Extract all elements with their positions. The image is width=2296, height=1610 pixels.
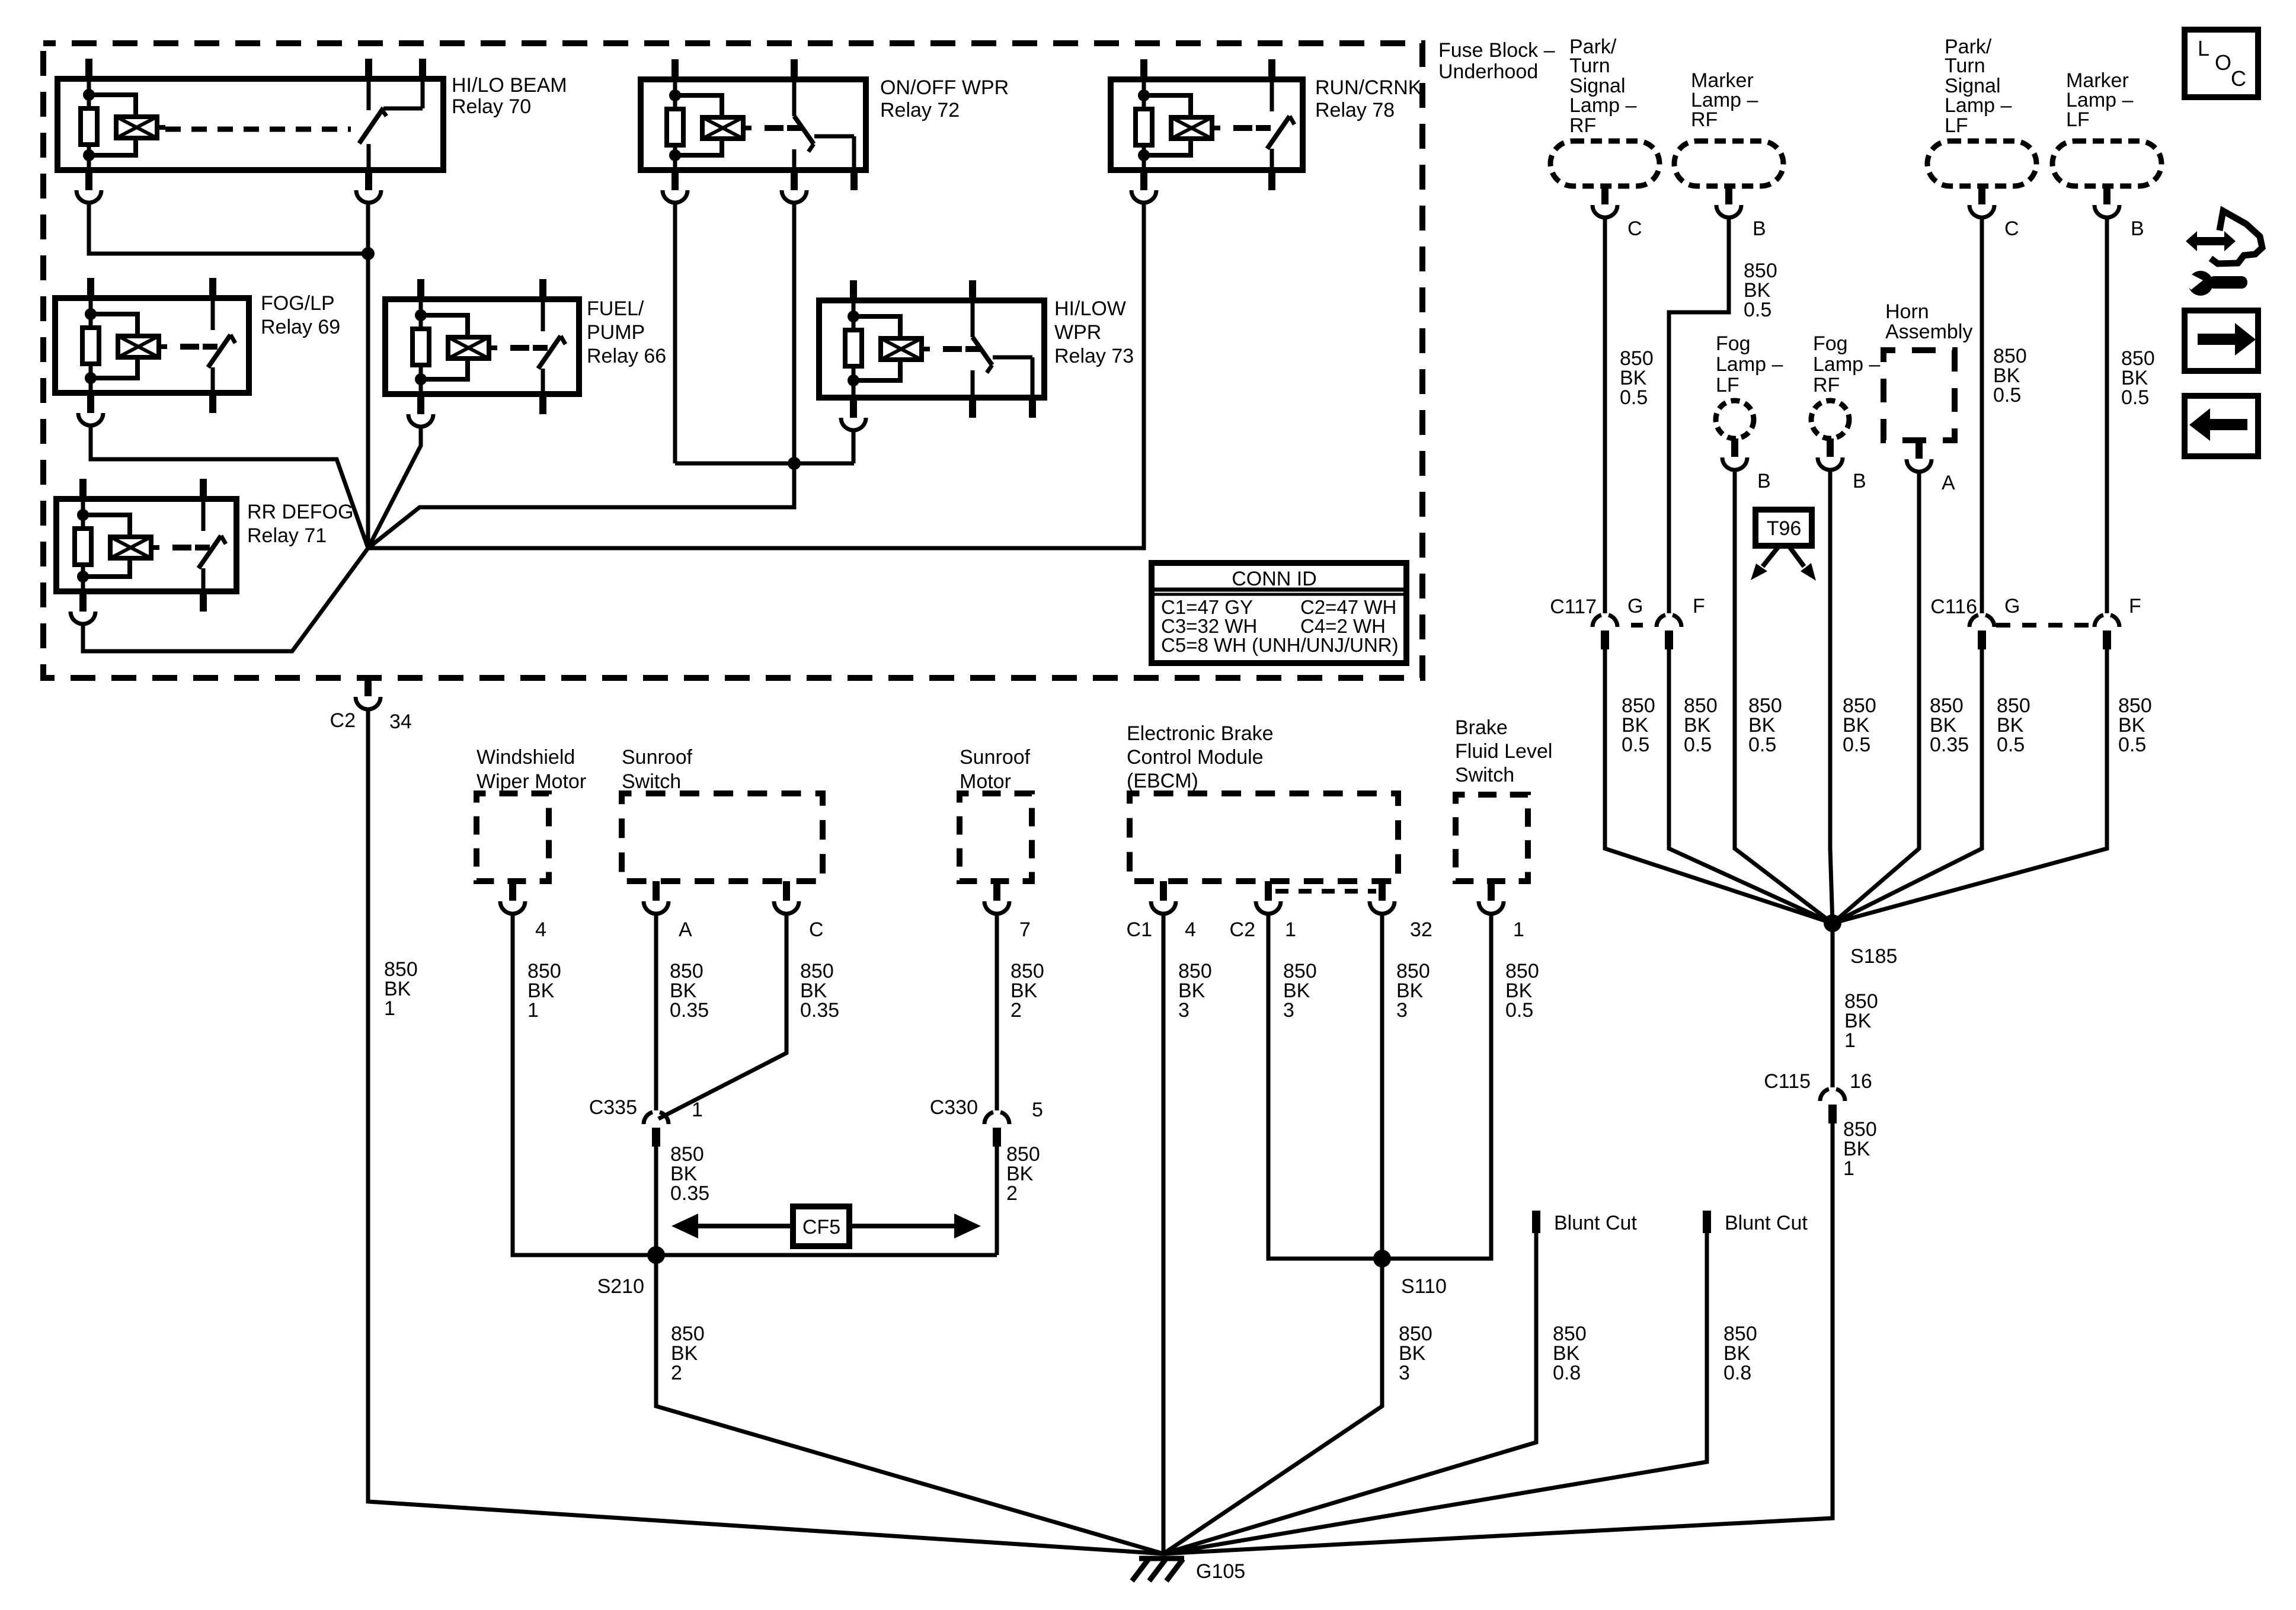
svg-text:Wiper Motor: Wiper Motor	[477, 770, 586, 793]
label relay 71	[247, 501, 353, 547]
wire brake fluid 1 to S110	[1382, 915, 1491, 1259]
wire S110 down to G105	[1163, 1259, 1382, 1554]
splice S110	[1373, 1250, 1447, 1298]
svg-text:1: 1	[384, 997, 395, 1020]
wire bus to junction X	[368, 463, 794, 548]
wire sunroof motor 7 down to C330	[995, 915, 999, 1110]
wire blunt cut 2 to G105	[1163, 1233, 1707, 1554]
wire relay70 coil to bus	[89, 204, 368, 254]
svg-text:0.35: 0.35	[670, 1182, 709, 1205]
svg-text:F: F	[2129, 595, 2141, 617]
svg-text:G105: G105	[1196, 1560, 1245, 1583]
connector sunroof motor pin 7	[984, 881, 1031, 941]
wire label 850 BK 1	[384, 958, 418, 1020]
svg-text:CONN ID: CONN ID	[1232, 568, 1317, 590]
wire horn A down to S185	[1833, 473, 1919, 923]
wire label 850 BK 1 (above C115)	[1844, 990, 1878, 1052]
wire M-LF B down to C116-F	[2105, 219, 2109, 613]
svg-text:RF: RF	[1691, 108, 1718, 131]
svg-text:Brake: Brake	[1455, 716, 1508, 739]
wire label 850 BK 0.5 (M-LF)	[2121, 347, 2155, 409]
connector brake fluid pin 1	[1479, 881, 1524, 941]
svg-text:0.5: 0.5	[1620, 386, 1648, 409]
relay 71 RR DEFOG	[56, 479, 236, 612]
connector C116 pin G	[1969, 615, 1994, 649]
connector under relay 73 coil pin	[841, 418, 866, 430]
wire C116-G down to S185	[1833, 649, 1982, 923]
svg-text:B: B	[1757, 470, 1771, 492]
wire blunt cut 1 to G105	[1163, 1233, 1536, 1554]
label relay 72	[880, 76, 1009, 121]
label C117 pin F	[1693, 595, 1705, 617]
label Electronic Brake Control Module (EBCM)	[1127, 722, 1274, 792]
svg-text:Relay 69: Relay 69	[261, 316, 340, 338]
wire label 850 BK 3 (C2-1)	[1283, 960, 1317, 1022]
splice S210	[597, 1246, 665, 1298]
svg-text:0.5: 0.5	[1993, 384, 2021, 406]
arrow T96 left	[1751, 546, 1779, 580]
svg-text:Turn: Turn	[1945, 55, 1985, 77]
svg-text:A: A	[1942, 472, 1955, 494]
svg-text:1: 1	[1844, 1029, 1856, 1052]
relay 70 HI/LO BEAM	[57, 59, 443, 190]
svg-text:Relay 71: Relay 71	[247, 524, 327, 547]
wire Fog-RF B down to S185	[1830, 471, 1833, 923]
svg-text:7: 7	[1019, 918, 1031, 941]
relay 78 RUN/CRNK	[1111, 59, 1303, 190]
wire label 850 BK 0.5 (Fog LF)	[1748, 694, 1782, 756]
connector under relay 70 coil pin	[76, 190, 101, 203]
svg-text:Underhood: Underhood	[1438, 60, 1538, 83]
svg-text:Lamp –: Lamp –	[1945, 94, 2012, 117]
wire relay72 coil down	[673, 204, 677, 463]
wire label 850 BK 0.35 (C)	[800, 960, 839, 1022]
svg-text:Motor: Motor	[960, 770, 1011, 793]
svg-text:B: B	[1853, 470, 1866, 492]
EBCM dashed link C2-32	[1275, 889, 1376, 894]
wire label 850 BK 0.5 (Fog RF)	[1843, 694, 1876, 756]
connector under relay 78 coil pin	[1131, 190, 1156, 203]
svg-text:4: 4	[535, 918, 546, 941]
wire label 850 BK 0.8 (bc2)	[1723, 1323, 1757, 1384]
label Park/Turn Signal Lamp LF	[1945, 36, 2012, 137]
svg-text:F: F	[1693, 595, 1705, 617]
svg-text:G: G	[1627, 595, 1643, 617]
svg-text:Lamp –: Lamp –	[1569, 94, 1636, 117]
svg-text:L: L	[2198, 36, 2209, 60]
connector under horn pin A	[1907, 440, 1955, 494]
label Sunroof Switch	[622, 746, 693, 793]
label C116	[1930, 596, 1977, 618]
junction dot at bus	[362, 247, 375, 260]
svg-text:Blunt Cut: Blunt Cut	[1554, 1212, 1637, 1234]
connector sunroof switch pin C	[774, 881, 824, 941]
C116 dashed link	[1996, 623, 2093, 628]
svg-text:3: 3	[1178, 999, 1189, 1022]
svg-text:S210: S210	[597, 1275, 644, 1298]
icon LOC box	[2185, 30, 2258, 97]
wire S185 down to C115	[1831, 923, 1835, 1087]
svg-text:Relay 78: Relay 78	[1315, 99, 1395, 121]
svg-text:2: 2	[1006, 1182, 1018, 1205]
connector under relay 66 coil pin	[408, 414, 433, 427]
connector under relay 71 coil pin	[71, 612, 95, 624]
wire EBCM C2-1 to S110	[1268, 915, 1382, 1259]
svg-text:Windshield: Windshield	[477, 746, 575, 769]
label relay 69	[261, 292, 340, 338]
svg-text:Fog: Fog	[1813, 332, 1848, 355]
wire label 850 BK 0.5 (C116 G)	[1997, 694, 2030, 756]
connector wiper pin 4	[500, 881, 546, 941]
lamp Fog Lamp RF	[1811, 401, 1849, 438]
wire relay78 coil to junction X	[368, 204, 1144, 548]
svg-text:S185: S185	[1850, 945, 1897, 968]
relay 66 FUEL/PUMP	[385, 279, 579, 414]
svg-text:1: 1	[1513, 918, 1524, 941]
connector under PT-LF pin C	[1969, 186, 2019, 240]
wire sunroof A down to C335	[654, 915, 658, 1110]
wire relay73 coil to bus	[852, 431, 856, 463]
splice S185	[1824, 914, 1897, 968]
wire label 850 BK 1 (below C115)	[1843, 1118, 1877, 1180]
label C117	[1550, 596, 1597, 618]
label C116 pin F	[2129, 595, 2141, 617]
wire label 850 BK 3 (pin 32)	[1396, 960, 1430, 1022]
svg-text:C: C	[2004, 217, 2019, 240]
connector EBCM C1 pin 4	[1127, 881, 1196, 941]
relay 72 ON/OFF WPR	[641, 59, 866, 190]
svg-text:0.35: 0.35	[670, 999, 709, 1022]
label Fog Lamp LF	[1716, 332, 1783, 396]
wire label 850 BK 0.5 (PT-LF)	[1993, 345, 2027, 406]
connector C115 pin 16	[1764, 1070, 1872, 1124]
CF5 box with double arrow	[671, 1206, 981, 1246]
svg-text:O: O	[2215, 50, 2231, 75]
connector under relay 72 switch pin	[782, 190, 807, 203]
svg-text:C2: C2	[1230, 918, 1255, 941]
wire label 850 BK 0.35 (A)	[670, 960, 709, 1022]
svg-text:Fog: Fog	[1716, 332, 1751, 355]
svg-text:0.5: 0.5	[1505, 999, 1533, 1022]
label Brake Fluid Level Switch	[1455, 716, 1552, 786]
connector EBCM pin 32	[1370, 881, 1432, 941]
wire label 850 BK 0.5 (PT-RF)	[1620, 347, 1654, 409]
wire label 850 BK 0.8 (bc1)	[1553, 1323, 1587, 1384]
svg-text:1: 1	[527, 999, 539, 1022]
wire C117-F down to S185	[1669, 649, 1833, 923]
svg-text:HI/LO BEAM: HI/LO BEAM	[452, 74, 567, 97]
svg-text:C116: C116	[1930, 596, 1977, 618]
label Sunroof Motor	[960, 746, 1031, 793]
wire label 850 BK 0.35 (horn)	[1930, 694, 1969, 756]
wire label 850 BK 0.5 (brake)	[1505, 960, 1539, 1022]
svg-text:C5=8 WH (UNH/UNJ/UNR): C5=8 WH (UNH/UNJ/UNR)	[1161, 634, 1399, 656]
connector under PT-RF pin C	[1593, 186, 1642, 240]
svg-text:Turn: Turn	[1569, 55, 1610, 77]
wire C115 down to G105	[1163, 1124, 1833, 1554]
svg-text:A: A	[679, 918, 692, 941]
svg-text:C: C	[809, 918, 824, 941]
svg-text:1: 1	[1843, 1157, 1854, 1180]
wire label 850 BK 2 (below S210)	[671, 1323, 705, 1384]
blunt cut 2	[1703, 1211, 1808, 1234]
svg-text:0.5: 0.5	[1744, 299, 1771, 321]
svg-text:32: 32	[1410, 918, 1432, 941]
svg-text:3: 3	[1396, 999, 1408, 1022]
wire label 850 BK 0.35 (below C335)	[670, 1143, 709, 1205]
svg-text:3: 3	[1399, 1362, 1410, 1384]
svg-text:WPR: WPR	[1054, 321, 1101, 344]
svg-text:0.5: 0.5	[1748, 734, 1776, 756]
label C116 pin G	[2004, 595, 2020, 617]
wire relay70 switch down to junction X	[366, 204, 370, 548]
label Park/Turn Signal Lamp RF	[1569, 36, 1636, 137]
label relay 66	[587, 297, 666, 367]
label Marker Lamp RF	[1691, 69, 1758, 131]
svg-text:Relay 66: Relay 66	[587, 345, 666, 367]
svg-text:Relay 72: Relay 72	[880, 99, 960, 121]
wire S210 bus	[513, 1253, 997, 1257]
svg-text:T96: T96	[1767, 517, 1802, 540]
svg-text:0.35: 0.35	[1930, 734, 1969, 756]
wire M-RF B jog to C117-F	[1669, 219, 1729, 613]
svg-text:C: C	[1627, 217, 1642, 240]
connector C2 pin 34	[330, 678, 412, 733]
lamp Park/Turn Signal Lamp RF	[1550, 141, 1659, 186]
wire label 850 BK 3 (C1-4)	[1178, 960, 1212, 1022]
label Horn Assembly	[1885, 300, 1972, 343]
label Windshield Wiper Motor	[477, 746, 586, 793]
relay 73 HI/LOW WPR	[819, 280, 1044, 418]
svg-text:Assembly: Assembly	[1885, 321, 1972, 343]
wire C330 down to S210 bus	[995, 1147, 999, 1255]
arrow T96 right	[1789, 546, 1816, 581]
svg-text:2: 2	[1011, 999, 1022, 1022]
svg-text:C330: C330	[930, 1096, 978, 1119]
wire PT-RF C down to C117-G	[1603, 219, 1607, 613]
wire label 850 BK 0.5 (C117 F)	[1684, 694, 1718, 756]
wire C116-F down to S185	[1833, 649, 2107, 923]
connector under relay 69 coil pin	[78, 413, 103, 425]
svg-text:0.8: 0.8	[1553, 1362, 1581, 1384]
ground G105	[1132, 1558, 1245, 1583]
connector under M-LF pin B	[2094, 186, 2144, 240]
relay 69 FOG/LP	[55, 278, 249, 413]
CONN ID table	[1152, 563, 1406, 663]
svg-text:4: 4	[1185, 918, 1196, 941]
wire relay69 coil to junction X	[91, 427, 368, 548]
EBCM box	[1130, 793, 1398, 881]
wire PT-LF C down to C116-G	[1980, 219, 1984, 613]
brake fluid level switch box	[1456, 795, 1528, 881]
svg-text:RUN/CRNK: RUN/CRNK	[1315, 76, 1422, 99]
connector C117 pin G	[1593, 615, 1617, 649]
icon diagnostic wrench	[2183, 211, 2262, 296]
icon arrow right box	[2185, 311, 2258, 371]
wire bus relay72/73	[675, 462, 854, 466]
svg-text:B: B	[2131, 217, 2144, 240]
label relay 70	[452, 74, 567, 118]
connector C330 pin 5	[930, 1096, 1043, 1147]
svg-text:1: 1	[692, 1099, 703, 1121]
svg-text:34: 34	[389, 710, 412, 733]
svg-text:Electronic Brake: Electronic Brake	[1127, 722, 1274, 745]
svg-text:Sunroof: Sunroof	[960, 746, 1031, 769]
sunroof motor box	[960, 793, 1032, 881]
connector under relay 72 coil pin	[663, 190, 687, 203]
svg-text:0.5: 0.5	[1622, 734, 1649, 756]
svg-text:Horn: Horn	[1885, 300, 1929, 323]
label C117 pin G	[1627, 595, 1643, 617]
connector sunroof switch pin A	[644, 881, 692, 941]
svg-text:C2: C2	[330, 709, 356, 732]
junction dot relay72 bus	[788, 457, 801, 470]
connector C117 pin F	[1657, 615, 1681, 649]
wire label 850 BK 1 (wiper)	[527, 960, 561, 1022]
svg-text:(EBCM): (EBCM)	[1127, 770, 1198, 792]
svg-text:LF: LF	[2066, 108, 2090, 131]
wire relay72 switch down	[792, 204, 797, 463]
connector under relay 70 switch pin	[356, 190, 381, 203]
svg-text:0.35: 0.35	[800, 999, 839, 1022]
wire EBCM 32 down to S110	[1380, 915, 1384, 1259]
wire label 850 BK 0.5 (M-RF)	[1744, 260, 1777, 321]
wire Fog-LF B down to S185	[1735, 471, 1833, 923]
windshield wiper motor box	[477, 793, 549, 881]
note box T96	[1755, 510, 1812, 546]
svg-text:S110: S110	[1401, 1275, 1447, 1298]
svg-text:Lamp –: Lamp –	[1813, 353, 1880, 376]
svg-text:Control Module: Control Module	[1127, 746, 1264, 769]
svg-text:CF5: CF5	[802, 1216, 840, 1238]
lamp Park/Turn Signal Lamp LF	[1927, 141, 2036, 186]
svg-text:B: B	[1753, 217, 1766, 240]
svg-text:0.5: 0.5	[2118, 734, 2146, 756]
label relay 78	[1315, 76, 1422, 121]
svg-text:C115: C115	[1764, 1070, 1811, 1093]
connector C335 pin 1	[589, 1096, 703, 1147]
svg-text:LF: LF	[1945, 114, 1968, 137]
svg-text:Relay 73: Relay 73	[1054, 345, 1134, 367]
svg-text:C1: C1	[1127, 918, 1152, 941]
lamp Marker Lamp LF	[2052, 141, 2161, 186]
svg-text:C117: C117	[1550, 596, 1597, 618]
svg-text:3: 3	[1283, 999, 1294, 1022]
blunt cut 1	[1532, 1211, 1637, 1234]
wire label 850 BK 0.5 (C117 G)	[1622, 694, 1655, 756]
label relay 73	[1054, 297, 1134, 367]
svg-text:0.5: 0.5	[2121, 386, 2149, 409]
wire sunroof C diagonal to C335	[658, 915, 786, 1119]
wire EBCM C1-4 down to G105	[1162, 915, 1166, 1554]
svg-text:RR DEFOG: RR DEFOG	[247, 501, 353, 523]
wire label 850 BK 3 (below S110)	[1399, 1323, 1432, 1384]
svg-text:C: C	[2231, 66, 2246, 91]
wire 850 BK 1 from C2 down to G105	[368, 710, 1163, 1554]
connector under M-RF pin B	[1716, 186, 1766, 240]
wire relay66 coil to junction X	[368, 428, 421, 548]
svg-text:RF: RF	[1813, 374, 1840, 396]
label Fog Lamp RF	[1813, 332, 1880, 396]
svg-text:0.5: 0.5	[1684, 734, 1712, 756]
svg-text:Blunt Cut: Blunt Cut	[1725, 1212, 1808, 1234]
svg-text:1: 1	[1285, 918, 1296, 941]
lamp Fog Lamp LF	[1716, 401, 1754, 438]
svg-text:2: 2	[671, 1362, 682, 1384]
horn assembly box	[1884, 350, 1955, 440]
svg-text:Switch: Switch	[1455, 764, 1514, 786]
wire label 850 BK 2 (below C330)	[1006, 1143, 1040, 1205]
connector under Fog-LF pin B	[1722, 438, 1771, 492]
label Marker Lamp LF	[2066, 69, 2133, 131]
svg-text:RF: RF	[1569, 114, 1596, 137]
wire label 850 BK 0.5 (C116 F)	[2118, 694, 2152, 756]
lamp Marker Lamp RF	[1674, 141, 1783, 186]
sunroof switch box	[622, 793, 823, 881]
svg-text:LF: LF	[1716, 374, 1739, 396]
svg-text:FOG/LP: FOG/LP	[261, 292, 335, 315]
label Fuse Block - Underhood	[1438, 39, 1555, 83]
wire C335 down to S210	[654, 1147, 658, 1255]
svg-text:16: 16	[1850, 1070, 1872, 1093]
svg-text:0.5: 0.5	[1997, 734, 2025, 756]
svg-text:HI/LOW: HI/LOW	[1054, 297, 1126, 320]
svg-text:PUMP: PUMP	[587, 321, 645, 344]
svg-text:Lamp –: Lamp –	[1716, 353, 1783, 376]
connector EBCM C2 pin 1	[1230, 881, 1296, 941]
svg-text:5: 5	[1032, 1099, 1043, 1121]
svg-text:C335: C335	[589, 1096, 637, 1119]
svg-text:Switch: Switch	[622, 770, 681, 793]
wire label 850 BK 2 (motor)	[1011, 960, 1044, 1022]
svg-text:0.8: 0.8	[1723, 1362, 1751, 1384]
svg-text:0.5: 0.5	[1843, 734, 1870, 756]
svg-text:Fuse Block –: Fuse Block –	[1438, 39, 1555, 62]
C117 dashed link	[1631, 623, 1643, 628]
svg-text:Sunroof: Sunroof	[622, 746, 693, 769]
wire relay71 coil to junction X	[83, 548, 368, 651]
svg-text:G: G	[2004, 595, 2020, 617]
svg-text:Relay 70: Relay 70	[452, 95, 531, 118]
svg-text:ON/OFF WPR: ON/OFF WPR	[880, 76, 1009, 99]
connector C116 pin F	[2094, 615, 2119, 649]
wire wiper 4 to S210	[513, 915, 649, 1255]
svg-text:Fluid Level: Fluid Level	[1455, 740, 1552, 763]
connector under Fog-RF pin B	[1818, 438, 1866, 492]
svg-text:FUEL/: FUEL/	[587, 297, 644, 320]
wire C117-G down to S185	[1605, 649, 1833, 923]
fuse block underhood dashed border	[43, 43, 1422, 678]
icon arrow left box	[2185, 396, 2258, 456]
wire S210 down to G105	[656, 1255, 1163, 1554]
